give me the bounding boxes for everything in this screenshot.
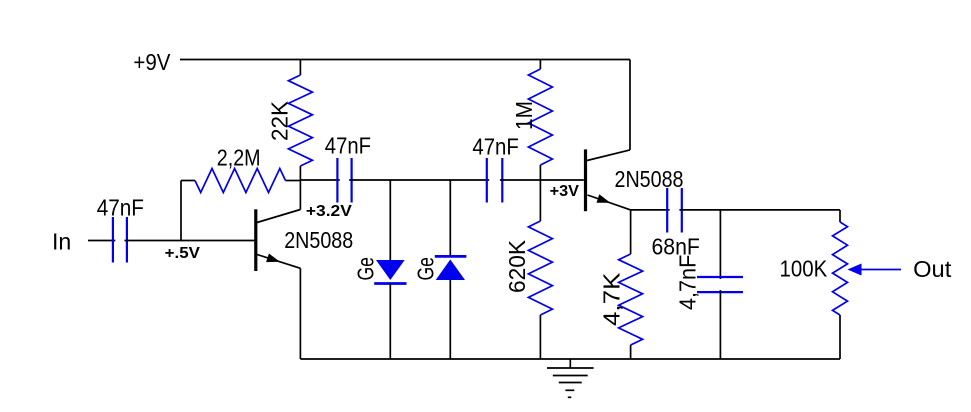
svg-text:2,2M: 2,2M (217, 145, 261, 171)
diode D1 Ge (353, 257, 407, 283)
wire input left (88, 240, 115, 242)
label +3V (550, 183, 580, 200)
wire Q2 collector (629, 60, 631, 150)
wire D2 top (449, 180, 451, 256)
wire C5 top (719, 210, 721, 279)
wire Q1 emitter (299, 268, 301, 359)
wiper arrow (848, 264, 902, 276)
capacitor C5 4,7nF (674, 255, 743, 310)
resistor R3 1M (511, 60, 552, 181)
wire D1 top (389, 180, 391, 260)
svg-text:22K: 22K (266, 100, 292, 141)
svg-text:47nF: 47nF (97, 195, 144, 221)
svg-text:+9V: +9V (133, 49, 171, 75)
capacitor C3 47nF (472, 134, 518, 203)
wire mid rail c (500, 179, 584, 181)
svg-text:2N5088: 2N5088 (284, 227, 353, 253)
wire D1 bottom (389, 284, 391, 360)
potentiometer R6 100K (780, 210, 848, 359)
transistor Q2 2N5088 (586, 149, 684, 211)
resistor R5 4,7K (599, 210, 643, 359)
resistor R2 2,2M (181, 145, 300, 193)
label +9V (133, 49, 171, 75)
wire mid rail a (300, 179, 339, 181)
wire +9V top rail (180, 59, 630, 61)
wire input to Q1 base (125, 240, 255, 242)
svg-text:Out: Out (913, 256, 952, 282)
wire bottom rail (300, 358, 840, 360)
svg-text:2N5088: 2N5088 (615, 166, 684, 192)
svg-text:47nF: 47nF (325, 132, 371, 158)
node Out (913, 256, 952, 282)
svg-text:+3.2V: +3.2V (306, 203, 353, 220)
ground (547, 359, 594, 397)
resistor R1 22K (266, 60, 312, 181)
svg-text:In: In (52, 229, 71, 255)
svg-text:Ge: Ge (413, 257, 439, 280)
diode D2 Ge (413, 256, 467, 280)
label +.5V (165, 245, 201, 262)
svg-text:620K: 620K (504, 239, 530, 293)
svg-text:+3V: +3V (550, 183, 580, 200)
svg-text:Ge: Ge (353, 257, 379, 280)
label +3.2V (306, 203, 353, 220)
wire feedback vertical (180, 181, 182, 241)
svg-text:1M: 1M (511, 101, 537, 130)
wire C5 bottom (719, 290, 721, 359)
capacitor C2 47nF (325, 132, 371, 202)
svg-text:4,7nF: 4,7nF (674, 255, 700, 310)
svg-text:100K: 100K (780, 255, 828, 281)
capacitor C4 68nF (652, 188, 700, 260)
wire emitter rail right (679, 209, 840, 211)
wire D2 bottom (449, 280, 451, 359)
svg-text:+.5V: +.5V (165, 245, 201, 262)
node In (52, 229, 71, 255)
wire Q2 emitter (631, 209, 670, 211)
wire mid rail b (349, 179, 489, 181)
wire Q1 collector (299, 180, 301, 210)
resistor R4 620K (504, 180, 552, 359)
capacitor C1 47nF (97, 195, 144, 263)
svg-text:47nF: 47nF (472, 134, 518, 160)
transistor Q1 2N5088 (256, 209, 353, 271)
svg-text:4,7K: 4,7K (599, 272, 625, 326)
